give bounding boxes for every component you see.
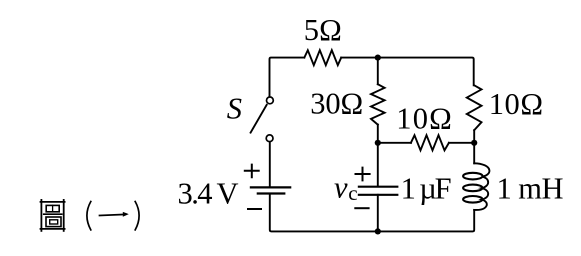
node junction dot middle-right (C) bbox=[471, 140, 477, 146]
figure caption: character YI (one) with wedge serif bbox=[100, 212, 129, 217]
switch S: top terminal circle bbox=[267, 97, 274, 104]
node junction dot bottom (D) bbox=[375, 228, 381, 234]
wire: middle column from top node down to 30-ohm resistor bbox=[377, 58, 379, 85]
battery plus sign bbox=[245, 165, 259, 178]
figure caption: right full-width parenthesis bbox=[135, 202, 139, 230]
wire: battery bottom plate down to bottom-left corner and along bottom to center node bbox=[270, 194, 378, 232]
resistor R 10ohm (middle horizontal zigzag) bbox=[411, 135, 449, 150]
wire: middle node right to 10-ohm horizontal resistor bbox=[378, 142, 411, 144]
wire: inductor bottom down to bottom-right corner and along bottom to center node bbox=[378, 210, 474, 232]
capacitor C 1uF: top plate bbox=[359, 186, 397, 188]
wire: switch bottom terminal down to battery top plate bbox=[269, 142, 271, 187]
node junction dot middle-left (B) bbox=[375, 140, 381, 146]
wire: right 10-ohm bottom to right middle node bbox=[473, 130, 475, 143]
inductor L 1mH (loop coil) bbox=[474, 163, 489, 210]
wire: 30-ohm bottom to middle node bbox=[377, 125, 379, 143]
resistor R 10ohm (right vertical zigzag) bbox=[467, 85, 482, 130]
svg-text:1 mH: 1 mH bbox=[497, 171, 564, 205]
node junction dot top (A) bbox=[375, 55, 381, 61]
resistor R 30ohm (vertical zigzag) bbox=[371, 84, 385, 124]
resistor R 5ohm (top horizontal zigzag) bbox=[304, 50, 341, 65]
figure caption: character TU (figure) drawn as strokes bbox=[41, 200, 65, 231]
capacitor plus sign bbox=[356, 168, 370, 181]
wire: middle node down to capacitor top plate bbox=[377, 143, 379, 186]
svg-text:1 µF: 1 µF bbox=[401, 172, 452, 206]
svg-text:10Ω: 10Ω bbox=[489, 87, 543, 121]
wire: capacitor bottom plate down to bottom node bbox=[377, 195, 379, 232]
capacitor C 1uF: bottom plate bbox=[359, 194, 397, 196]
svg-text:5Ω: 5Ω bbox=[304, 13, 342, 47]
battery 3.4V: short bottom plate bbox=[258, 192, 285, 194]
figure caption: left full-width parenthesis bbox=[87, 202, 91, 230]
switch S: blade (open) bbox=[251, 105, 267, 133]
wire: top-left from switch top terminal up and right to 5-ohm resistor bbox=[270, 58, 305, 97]
switch S: bottom terminal circle bbox=[266, 135, 273, 142]
svg-text:3.4 V: 3.4 V bbox=[178, 177, 239, 211]
wire: 10-ohm horizontal right end to right middle node bbox=[449, 142, 474, 144]
capacitor minus sign bbox=[355, 207, 368, 209]
svg-text:v: v bbox=[334, 170, 348, 204]
wire: right middle node down to inductor top bbox=[473, 143, 475, 164]
battery 3.4V: long top plate bbox=[251, 186, 290, 188]
svg-text:30Ω: 30Ω bbox=[310, 87, 363, 121]
svg-text:10Ω: 10Ω bbox=[396, 101, 452, 135]
svg-text:c: c bbox=[348, 181, 357, 205]
svg-text:S: S bbox=[227, 91, 242, 125]
wire: 5-ohm right end to top-right corner and down to 10-ohm resistor bbox=[341, 58, 474, 86]
battery minus sign bbox=[248, 208, 261, 210]
